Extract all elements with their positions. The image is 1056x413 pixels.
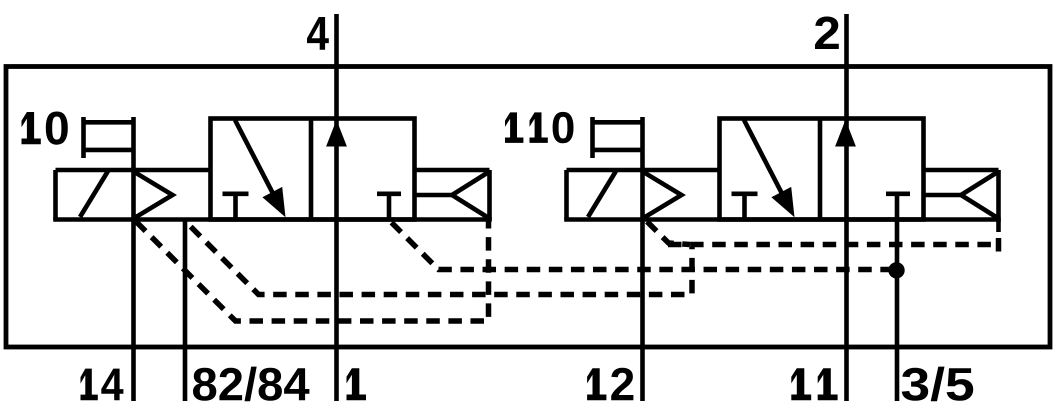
label: exhaust port 3/5 xyxy=(902,367,974,402)
flow path up arrowhead (open position) xyxy=(835,120,856,147)
label: port 2 xyxy=(815,17,839,50)
blocked port T bar (position a) xyxy=(223,192,249,197)
valve body centre divider xyxy=(818,119,823,220)
solenoid symbol diagonal xyxy=(588,171,616,217)
air-return box top edge xyxy=(924,168,999,173)
blocked port T bar (position b) xyxy=(377,192,401,197)
wire: port 2 / port 11 vertical working line xyxy=(844,14,849,401)
blocked port T bar (position a) xyxy=(732,192,758,197)
air-return box top edge xyxy=(415,168,490,173)
label: pilot port 110 xyxy=(505,112,574,143)
air-return pilot stub line xyxy=(415,193,453,198)
flow path diagonal (closed position) xyxy=(744,120,783,195)
dashed pilot channel: 82/84 riser to common channel xyxy=(187,223,693,295)
manual override bracket bottom bar xyxy=(82,148,136,153)
air-return box right edge xyxy=(996,170,1001,232)
dashed pilot channel: 12 pilot diagonal xyxy=(647,222,690,245)
manual override bracket left bar xyxy=(590,117,595,158)
pilot actuation chevron xyxy=(645,173,682,218)
dashed pilot channel: 14 pilot to left air-spring xyxy=(136,221,489,321)
blocked port T stem (position a) xyxy=(233,194,238,220)
wire: pilot line 14 vertical xyxy=(131,117,136,401)
flow path diagonal (closed position) xyxy=(235,120,274,195)
manual override bracket top bar xyxy=(82,120,136,125)
air-return chevron xyxy=(961,172,999,219)
manual override bracket left bar xyxy=(81,117,86,158)
solenoid pilot box top edge xyxy=(567,168,720,173)
junction dot on 3/5 line xyxy=(888,262,904,278)
label: pilot exhaust 82/84 xyxy=(193,367,309,402)
label: pilot port 14 xyxy=(81,369,124,401)
label: port 4 xyxy=(307,17,329,50)
dashed pilot channel: left exhaust T to 3/5 junction xyxy=(392,223,897,270)
manual override bracket bottom bar xyxy=(591,148,645,153)
air-return pilot stub line xyxy=(924,193,962,198)
solenoid pilot box top edge xyxy=(56,168,211,173)
air-return box right edge xyxy=(487,170,492,220)
valve body (two switching positions) xyxy=(211,119,415,220)
dashed pilot channel: riser stub to right air-spring xyxy=(996,238,1002,252)
solenoid pilot box left edge xyxy=(564,170,569,220)
valve body centre divider xyxy=(309,119,314,220)
label: pilot port 10 xyxy=(22,112,68,145)
wire: port 4 / port 1 vertical working line xyxy=(334,14,339,401)
wire: pilot line 12 vertical xyxy=(640,117,645,401)
blocked port T bar (position b) xyxy=(886,192,910,197)
label: port 11 xyxy=(791,368,837,400)
blocked port T stem (position b) xyxy=(387,194,392,220)
valve assembly bottom edge xyxy=(53,217,492,222)
pilot actuation chevron xyxy=(136,173,173,218)
flow path up arrowhead (open position) xyxy=(326,120,347,147)
valve body (two switching positions) xyxy=(720,119,924,220)
manual override bracket top bar xyxy=(591,120,645,125)
dashed pilot channel: common channel horizontal run xyxy=(668,242,999,248)
wire: port 3/5 line from T stem down xyxy=(895,194,900,401)
flow path diagonal arrowhead xyxy=(771,187,794,217)
solenoid pilot box left edge xyxy=(53,170,58,220)
flow path diagonal arrowhead xyxy=(262,187,285,217)
label: supply port 1 xyxy=(347,368,367,400)
solenoid symbol diagonal xyxy=(80,171,108,217)
enclosure frame (valve terminal housing) xyxy=(6,67,1050,348)
label: pilot port 12 xyxy=(587,368,633,401)
air-return chevron xyxy=(452,172,490,219)
blocked port T stem (position a) xyxy=(742,194,747,220)
valve assembly bottom edge xyxy=(564,217,1001,222)
wire: pilot exhaust 82/84 vertical line xyxy=(183,220,188,402)
